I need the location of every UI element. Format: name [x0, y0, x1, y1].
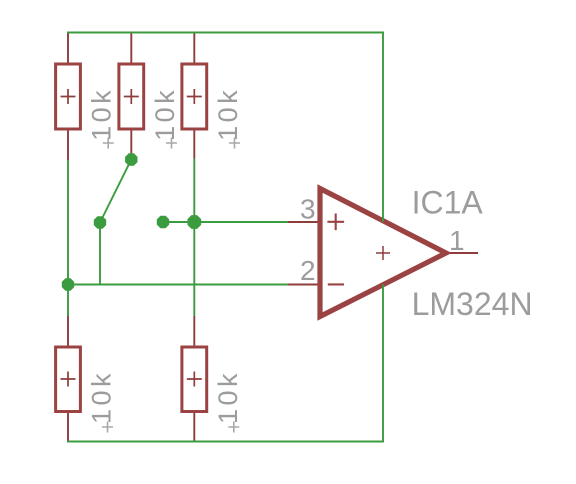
- origin cross R1: [103, 138, 114, 149]
- origin cross R4: [102, 422, 113, 433]
- svg-text:10k: 10k: [87, 370, 117, 424]
- value label R3 10k: [213, 87, 243, 141]
- svg-text:1: 1: [449, 225, 465, 256]
- wire left column: [67, 160, 69, 316]
- resistor R4 body: [56, 347, 81, 412]
- svg-text:10k: 10k: [150, 87, 180, 141]
- value label R2 10k: [150, 87, 180, 141]
- junction dot switch pole: [94, 216, 106, 228]
- resistor R4 pin bottom: [67, 411, 69, 442]
- op-amp U1 triangle body: [320, 189, 446, 317]
- junction dot inverting net left: [62, 278, 74, 290]
- junction dot at R2 bottom: [125, 153, 137, 165]
- resistor R3 body: [182, 64, 207, 129]
- svg-text:2: 2: [300, 255, 316, 286]
- wire bottom rail: [67, 441, 384, 443]
- wire switch diagonal: [100, 160, 131, 223]
- op-amp U1 pin 2 line: [288, 284, 318, 286]
- wire R3 column: [193, 159, 195, 317]
- pin label 3: [300, 193, 316, 224]
- part value LM324N: [412, 286, 533, 322]
- resistor R5 pin top: [193, 316, 195, 347]
- origin cross R3: [229, 138, 240, 149]
- wire inverting net horizontal: [68, 284, 288, 286]
- pin label 1: [449, 225, 465, 256]
- resistor R4 pin top: [67, 316, 69, 347]
- svg-text:10k: 10k: [87, 87, 117, 141]
- origin cross R5: [228, 422, 239, 433]
- value label R1 10k: [87, 87, 117, 141]
- junction dot net3 R3 column: [187, 215, 201, 229]
- pin label 2: [300, 255, 316, 286]
- part name IC1A: [412, 185, 484, 221]
- op-amp U1 minus input mark: [328, 283, 344, 285]
- svg-text:10k: 10k: [213, 370, 243, 424]
- svg-text:IC1A: IC1A: [412, 185, 484, 221]
- svg-text:3: 3: [300, 193, 316, 224]
- svg-text:LM324N: LM324N: [412, 286, 533, 322]
- wire non-inverting net horizontal: [163, 221, 288, 223]
- op-amp U1 plus input mark: [327, 214, 344, 231]
- origin cross R2: [166, 138, 177, 149]
- op-amp U1 origin cross: [376, 246, 390, 260]
- svg-text:10k: 10k: [213, 87, 243, 141]
- resistor R2 pin top: [130, 32, 132, 64]
- resistor R1 body: [56, 64, 81, 129]
- resistor R3 pin top: [193, 32, 195, 64]
- resistor R1 pin bottom: [67, 129, 69, 160]
- resistor R2 body: [119, 64, 144, 129]
- resistor R1 pin top: [67, 32, 69, 64]
- op-amp U1 pin 1 output line: [446, 252, 478, 254]
- resistor R5 pin bottom: [193, 411, 195, 442]
- wire right side upper: [382, 32, 384, 222]
- wire top rail: [67, 32, 384, 34]
- wire switch vertical: [99, 223, 101, 285]
- op-amp U1 pin 3 line: [288, 221, 318, 223]
- value label R4 10k: [87, 370, 117, 424]
- resistor R5 body: [182, 347, 207, 412]
- junction dot net3 left end: [157, 216, 169, 228]
- value label R5 10k: [213, 370, 243, 424]
- wire right side lower: [382, 285, 384, 443]
- resistor R2 pin bottom: [130, 129, 132, 160]
- resistor R3 pin bottom: [193, 129, 195, 159]
